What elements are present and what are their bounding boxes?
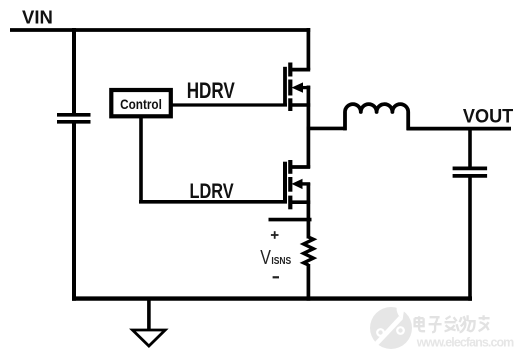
node plus sign <box>271 231 279 239</box>
wire LDRV <box>139 200 287 204</box>
wire VOUT to C-out <box>468 127 472 167</box>
inductor L1 <box>345 104 408 130</box>
wire C-out to ground rail <box>468 176 472 301</box>
LDRV label <box>190 180 234 204</box>
op-amp U1 control box <box>111 90 171 116</box>
wire VIN top rail <box>10 28 310 32</box>
svg-text:HDRV: HDRV <box>187 79 236 104</box>
VISNS label <box>260 245 291 268</box>
transistor Q1 high-side MOSFET <box>285 63 310 112</box>
ground <box>133 298 166 346</box>
resistor R-sense <box>304 237 314 265</box>
capacitor C-in <box>57 115 91 122</box>
watermark logo <box>370 300 412 349</box>
svg-text:VIN: VIN <box>22 7 53 28</box>
svg-text:Control: Control <box>120 97 162 112</box>
HDRV label <box>187 79 236 104</box>
wire left input rail upper <box>72 28 76 114</box>
wire VIN to Q1 drain <box>307 28 311 70</box>
wire bottom ground rail <box>72 296 472 300</box>
wire HDRV <box>171 103 287 106</box>
wire inductor to VOUT <box>407 127 511 131</box>
wire Q2 source down to resistor <box>307 183 311 239</box>
wire control to LDRV vertical <box>139 116 143 204</box>
svg-text:V: V <box>260 245 271 268</box>
wire sense tap <box>269 218 312 222</box>
wire switch node to inductor <box>307 127 346 131</box>
VOUT label <box>463 105 514 127</box>
watermark text <box>415 315 515 349</box>
wire resistor to ground rail <box>307 264 311 301</box>
wire left input rail lower <box>72 122 76 301</box>
node minus sign <box>273 276 279 278</box>
capacitor C-out <box>453 168 488 176</box>
svg-text:ISNS: ISNS <box>271 255 291 266</box>
wire switch node vertical <box>307 86 311 169</box>
transistor Q2 low-side MOSFET <box>285 160 310 209</box>
svg-text:VOUT: VOUT <box>463 105 514 127</box>
VIN label <box>22 7 53 28</box>
svg-text:www.elecfans.com: www.elecfans.com <box>416 335 515 349</box>
